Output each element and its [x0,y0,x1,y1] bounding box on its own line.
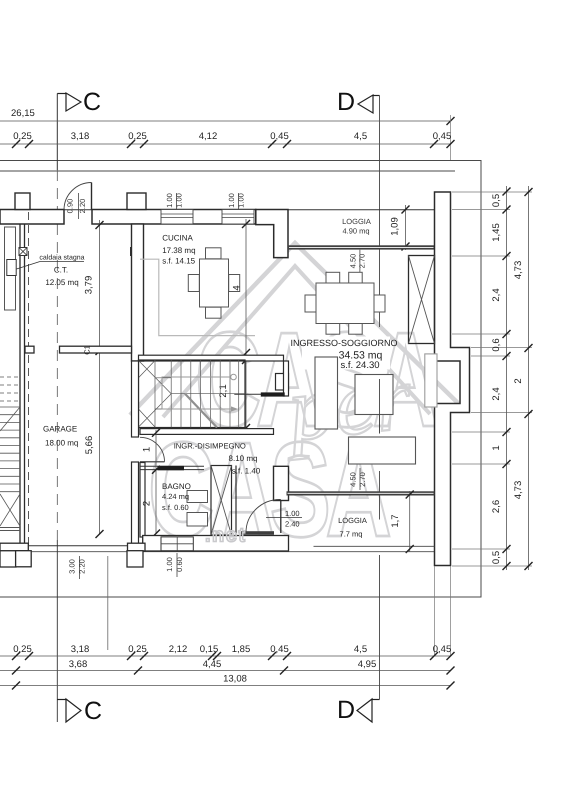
section flag D bottom [372,699,380,701]
dimension 1,09 [405,205,407,250]
right dimension chain outer [528,186,530,570]
left exterior wall lines [19,224,21,543]
north wall west segment [0,210,64,225]
dimension line 1 / 2 [155,430,157,534]
svg-text:1.00: 1.00 [175,193,184,208]
pilaster bottom-mid [127,551,143,567]
svg-text:3.00: 3.00 [68,559,77,574]
top dimension chain [0,143,451,145]
svg-text:0,25: 0,25 [128,131,147,142]
pilaster top-left [15,193,30,210]
sliding door hall-soggiorno leaf [261,392,285,396]
bagno shaft box [211,466,232,536]
kitchen / stair wall [139,355,284,361]
svg-text:17.38 mq: 17.38 mq [162,246,195,255]
svg-text:D: D [337,696,355,724]
svg-text:2.70: 2.70 [358,472,367,487]
watermark casapercasa logo [130,243,465,565]
south wall of bagno/hall [143,536,289,552]
svg-text:INGR.-DISIMPEGNO: INGR.-DISIMPEGNO [174,442,246,451]
svg-text:13,08: 13,08 [223,674,247,685]
svg-text:C: C [83,88,101,116]
svg-text:2: 2 [513,378,524,383]
stair direction arrow [231,374,237,380]
garage east wall upper [132,361,139,437]
stair box [139,360,246,428]
svg-text:C: C [84,697,102,725]
dimension line 3,79 / 5,66 [99,220,101,534]
kitchen chair bottom [206,307,222,318]
roof overhang line top [0,170,455,172]
dining chair right [374,295,385,312]
bagno west wall [140,463,145,538]
garage-hall door swing arc [140,437,165,462]
svg-text:0,25: 0,25 [13,131,32,142]
svg-text:3,18: 3,18 [71,131,90,142]
svg-text:1,45: 1,45 [491,223,502,242]
svg-text:2.70: 2.70 [358,254,367,269]
watermark roof outer [130,243,465,415]
svg-text:0,45: 0,45 [433,131,452,142]
roof overhang line bottom [14,551,451,553]
stair treads [139,360,246,428]
svg-text:18.00 mq: 18.00 mq [45,438,78,447]
bottom dimension chain 1 [0,655,451,657]
lot boundary rectangle [0,161,481,598]
svg-text:2,1: 2,1 [218,384,229,397]
loggia inner edge line [314,545,435,547]
section line C [56,94,58,171]
svg-text:LOGGIA: LOGGIA [338,516,367,525]
external stair bottom block [0,551,16,568]
garage east wall lower [132,462,139,544]
bagno east wall line [235,466,237,536]
loggia door threshold [241,531,274,535]
svg-text:4,45: 4,45 [203,659,222,670]
entrance door swing arc [64,182,92,209]
svg-text:26,15: 26,15 [11,108,35,119]
watermark roof inner [163,266,430,417]
svg-text:7.7 mq: 7.7 mq [340,530,363,539]
svg-text:CUCINA: CUCINA [162,234,193,243]
kitchen chair left [188,275,199,292]
watermark CASA row2 [148,414,389,565]
svg-text:1,85: 1,85 [232,644,251,655]
external stair landing edge [0,527,20,529]
sliding door hall-soggiorno track [234,393,262,395]
svg-text:2.20: 2.20 [77,559,86,574]
svg-text:0,5: 0,5 [491,194,502,207]
svg-text:1,09: 1,09 [390,217,401,236]
bagno fixture sink [187,491,208,503]
svg-text:0.90: 0.90 [66,199,75,214]
dining chair left [305,295,316,312]
garage south wall west [0,543,28,551]
wardrobe box with cross [409,256,435,344]
svg-text:4,73: 4,73 [513,481,524,500]
svg-text:2: 2 [142,501,153,506]
dimension line 4 / 2,1 [245,219,247,430]
bottom dimension chain 2 [0,670,451,672]
left wall dashed axis [28,212,30,556]
glass wall bottom (loggia) [287,491,435,495]
svg-text:4: 4 [232,285,243,290]
svg-text:0,15: 0,15 [200,644,219,655]
bottom dimension chain 3 [0,685,451,687]
svg-text:1.00: 1.00 [165,557,174,572]
entrance door leaf [91,183,93,210]
external stair treads [0,407,20,492]
cabinet tall [315,357,338,429]
loggia slab edge line [0,209,435,211]
kitchen table [200,259,229,307]
svg-text:2,6: 2,6 [491,500,502,513]
dining chair top-right [349,272,363,283]
svg-text:0,45: 0,45 [433,644,452,655]
stair break line [185,394,217,428]
pilaster top-mid [127,193,146,210]
svg-text:2,4: 2,4 [491,387,502,400]
svg-text:2,12: 2,12 [169,644,188,655]
svg-text:1.00: 1.00 [227,193,236,208]
hall east pier [274,466,289,500]
pilaster bottom-left [16,551,32,567]
low table [355,375,393,415]
loggia door swing arc [246,499,281,532]
radiator in front of niche [425,354,437,407]
dimension 1,7 [409,491,411,552]
svg-text:12.05 mq: 12.05 mq [45,278,78,287]
svg-text:4.50: 4.50 [348,254,357,269]
svg-text:3,18: 3,18 [71,644,90,655]
svg-text:s.f. 0.60: s.f. 0.60 [162,503,189,512]
svg-text:0,25: 0,25 [128,644,147,655]
svg-text:4,12: 4,12 [199,131,218,142]
svg-text:s.f. 14.15: s.f. 14.15 [162,257,195,266]
section flag C bottom [57,699,66,701]
C.T. / garage wall stub [25,346,34,353]
kitchen chair top [206,248,222,259]
external stair diagonal [0,407,20,431]
svg-text:5,66: 5,66 [84,436,95,455]
dining chair bottom-right [349,324,363,335]
bagno fixture wc [187,513,208,527]
svg-text:D: D [337,88,355,116]
svg-text:0,25: 0,25 [13,644,32,655]
garage-hall door leaf [140,461,165,463]
north wall mid segment [92,210,256,225]
svg-text:1.00: 1.00 [165,193,174,208]
svg-text:4.50: 4.50 [349,472,358,487]
C.T. wall socket left [19,248,27,256]
kitchen window 1 [161,210,193,225]
C.T. wall socket right [131,248,139,256]
svg-text:0,45: 0,45 [270,131,289,142]
kitchen window 2 [222,210,254,225]
svg-text:2.20: 2.20 [78,199,87,214]
svg-text:s.f. 24.30: s.f. 24.30 [340,360,379,371]
external stair cross lines [0,494,20,526]
svg-text:1: 1 [142,447,153,452]
sofa [349,437,416,464]
svg-text:1.00: 1.00 [237,193,246,208]
external stair dashed treads [0,377,20,401]
right exterior wall with chimney bay and niche [435,192,470,566]
hall east wall upper [284,361,289,396]
svg-text:INGRESSO-SOGGIORNO: INGRESSO-SOGGIORNO [290,338,397,348]
left boundary planter wall [5,227,16,310]
garage south wall east jamb [128,543,146,551]
bottom extension lines [450,566,452,656]
svg-text:4.90 mq: 4.90 mq [342,227,369,236]
section flag D top [373,95,380,97]
svg-text:BAGNO: BAGNO [162,482,191,491]
kitchen chair right [229,275,240,292]
svg-text:4,73: 4,73 [513,261,524,280]
svg-text:GARAGE: GARAGE [43,424,77,433]
radiator beside stair [276,374,289,391]
right chain extension lines [452,192,532,566]
bagno window [161,537,193,551]
glass wall top (loggia) [288,245,435,249]
watermark CASA row1 [195,304,436,455]
svg-text:0,6: 0,6 [491,338,502,351]
svg-text:.net: .net [205,525,247,547]
C.T. / cucina dividing wall [132,224,144,361]
svg-text:2,4: 2,4 [491,288,502,301]
svg-text:1,7: 1,7 [390,514,401,527]
svg-text:LOGGIA: LOGGIA [342,217,371,226]
section flag C top [57,93,66,95]
soggiorno text background [302,337,390,370]
svg-text:0.60: 0.60 [175,557,184,572]
extension line below garage [107,556,109,650]
bagno top wall with sliding door [140,465,204,467]
svg-text:0,45: 0,45 [270,644,289,655]
section line D [379,96,381,328]
svg-text:8.10 mq: 8.10 mq [229,454,258,463]
svg-text:4,5: 4,5 [354,131,367,142]
caldaia stagna box [7,260,16,276]
dining chair bottom-left [326,324,340,335]
svg-text:1: 1 [491,445,502,450]
svg-text:1.00: 1.00 [285,509,300,518]
bagno sliding door leaf [158,466,185,470]
hall bottom wall [140,429,274,435]
garage door leaf line [28,545,127,547]
dining chair top-left [326,272,340,283]
svg-text:C1: C1 [83,345,92,355]
kitchen corner pier [256,210,288,258]
svg-text:0,5: 0,5 [491,551,502,564]
svg-text:3,79: 3,79 [84,276,95,295]
svg-text:4.24 mq: 4.24 mq [162,492,189,501]
svg-text:caldaia stagna: caldaia stagna [39,254,84,262]
right dimension chain inner [506,186,508,570]
svg-text:4,5: 4,5 [354,644,367,655]
loggia door leaf [280,501,282,534]
section line D through low table [379,379,381,434]
C.T. / garage wall [60,346,132,353]
watermark per [277,346,417,461]
svg-text:4,95: 4,95 [358,659,377,670]
svg-text:C.T.: C.T. [54,266,68,275]
svg-text:2.40: 2.40 [285,520,300,529]
svg-text:3,68: 3,68 [69,659,88,670]
upper floor projection line (gray step in kitchen) [140,259,255,335]
dining table [316,283,374,324]
